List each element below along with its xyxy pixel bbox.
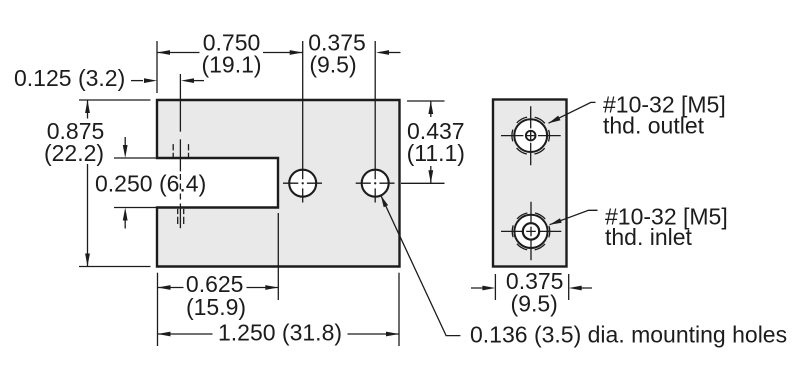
svg-text:(22.2): (22.2) — [44, 140, 104, 166]
svg-text:(19.1): (19.1) — [201, 52, 261, 78]
svg-text:(9.5): (9.5) — [511, 291, 558, 317]
svg-text:(9.5): (9.5) — [309, 52, 356, 78]
svg-text:thd. inlet: thd. inlet — [605, 224, 693, 250]
svg-text:0.125 (3.2): 0.125 (3.2) — [14, 65, 125, 91]
svg-text:(11.1): (11.1) — [407, 140, 465, 166]
svg-text:0.136 (3.5) dia. mounting hole: 0.136 (3.5) dia. mounting holes — [470, 322, 787, 348]
svg-text:thd. outlet: thd. outlet — [603, 113, 705, 139]
svg-text:0.250 (6.4): 0.250 (6.4) — [95, 171, 206, 197]
svg-text:(15.9): (15.9) — [186, 294, 246, 320]
svg-text:1.250 (31.8): 1.250 (31.8) — [218, 320, 342, 346]
